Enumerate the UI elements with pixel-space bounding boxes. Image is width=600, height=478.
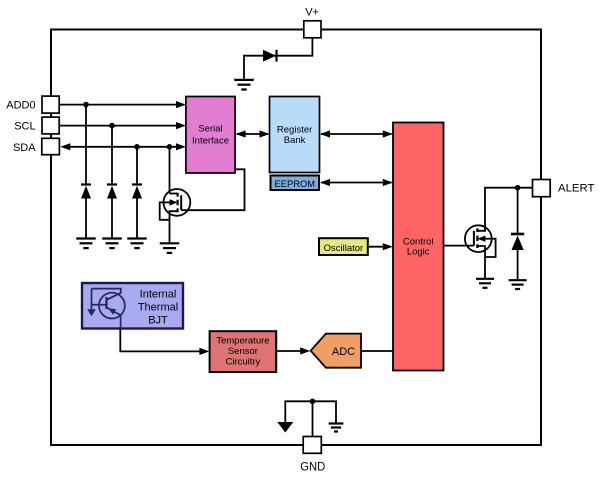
svg-text:Bank: Bank (284, 135, 306, 146)
svg-text:Logic: Logic (407, 247, 430, 258)
svg-text:Circuitry: Circuitry (225, 357, 260, 368)
svg-text:Oscillator: Oscillator (324, 243, 364, 254)
svg-text:ADC: ADC (332, 346, 355, 358)
svg-text:Temperature: Temperature (216, 335, 269, 346)
svg-text:SDA: SDA (13, 142, 36, 154)
svg-text:Internal: Internal (140, 289, 177, 301)
svg-text:EEPROM: EEPROM (275, 179, 316, 190)
svg-text:BJT: BJT (148, 315, 168, 327)
svg-text:ALERT: ALERT (558, 183, 595, 195)
svg-text:SCL: SCL (14, 121, 35, 133)
svg-text:Interface: Interface (192, 135, 229, 146)
svg-text:Thermal: Thermal (138, 302, 178, 314)
svg-text:V+: V+ (305, 7, 319, 19)
svg-text:Serial: Serial (198, 124, 222, 135)
svg-text:GND: GND (300, 462, 325, 474)
svg-text:ADD0: ADD0 (6, 100, 35, 112)
svg-text:Sensor: Sensor (228, 346, 258, 357)
